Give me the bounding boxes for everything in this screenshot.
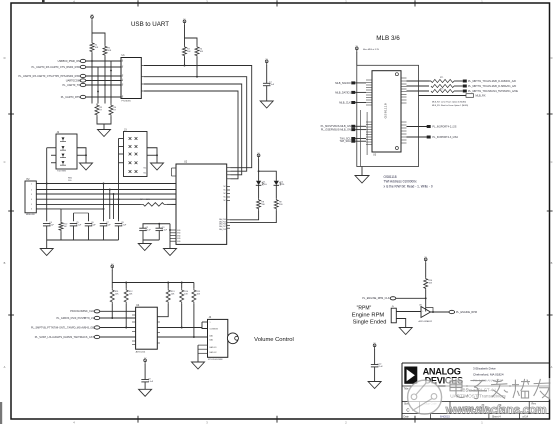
wire (396, 297, 426, 299)
series resistor RT1 (407, 80, 430, 82)
svg-text:Engine RPM: Engine RPM (352, 313, 385, 319)
header J3 (124, 132, 148, 177)
wire U2 to LED chains (230, 210, 259, 220)
cap row bottom bus (46, 226, 48, 240)
MLB_RX strap (419, 95, 467, 97)
volume input pads (94, 310, 100, 313)
wire (356, 52, 358, 65)
watermark logo circle (408, 380, 442, 414)
svg-text:PL_MRTH1_TXCAN-MLB_D-AVB4O1_A/: PL_MRTH1_TXCAN-MLB_D-AVB4O1_A/D (468, 80, 516, 83)
resistor R15 (192, 288, 196, 304)
capacitor C9 (141, 379, 149, 381)
svg-text:PL_GMIOS_DVI0_PUSHBTN_LS: PL_GMIOS_DVI0_PUSHBTN_LS (56, 317, 94, 320)
power 5V P1 (91, 18, 93, 21)
resistor R9 (274, 198, 278, 210)
RPM input pad (390, 297, 396, 300)
svg-text:PL_SUSH_LIS-AUDATS_DAPM2_TANTR: PL_SUSH_LIS-AUDATS_DAPM2_TANTRIACS_GST (35, 336, 95, 339)
svg-text:Volume Control: Volume Control (254, 337, 294, 343)
wire (266, 86, 268, 101)
svg-text:DAI_P07: DAI_P07 (219, 225, 226, 228)
wire (266, 65, 268, 83)
svg-text:PL_ENGINE_RPM_CLK: PL_ENGINE_RPM_CLK (362, 297, 390, 300)
watermark chinese characters (446, 378, 467, 400)
svg-text:USB to UART: USB to UART (131, 21, 169, 28)
svg-text:FT230XS: FT230XS (122, 101, 132, 103)
svg-text:0.1uF: 0.1uF (162, 229, 168, 231)
J4 lower pins to ground (198, 344, 208, 346)
node (184, 65, 186, 67)
svg-text:5: 5 (31, 204, 32, 206)
svg-text:STX-31003.5MM: STX-31003.5MM (208, 359, 223, 361)
svg-text:OS81118: OS81118 (384, 175, 397, 179)
IC U4 (136, 307, 158, 349)
svg-text:C: C (406, 408, 409, 413)
connector J4 jack (208, 319, 228, 357)
U2 left pins (172, 167, 177, 169)
svg-text:RT1: RT1 (440, 77, 443, 79)
svg-text:x is the R/W bit: Read - 1, W: x is the R/W bit: Read - 1, Write - 0 (384, 184, 433, 188)
svg-text:3: 3 (31, 194, 32, 196)
op IC U1 FT230X (121, 58, 141, 99)
ground (151, 163, 164, 170)
svg-text:Title: Title (404, 387, 409, 391)
ground (192, 362, 205, 369)
svg-text:PICCOLOMISC_CLK: PICCOLOMISC_CLK (70, 310, 94, 313)
svg-text:B: B (551, 261, 553, 265)
series resistor RT3 (407, 90, 430, 92)
svg-text:PL_MRTH1_TXD-MM-M1_5VTRM/O1_A/: PL_MRTH1_TXD-MM-M1_5VTRM/O1_A/OE (468, 90, 518, 93)
svg-text:TCK/TMS: TCK/TMS (57, 171, 66, 173)
svg-text:MLB_DAT/D1: MLB_DAT/D1 (335, 90, 351, 94)
op-amp U5 (421, 307, 431, 318)
svg-text:3: 3 (122, 74, 123, 76)
capacitor C5 (70, 223, 78, 225)
svg-text:A: A (4, 365, 6, 369)
svg-text:0.1uF: 0.1uF (76, 225, 82, 227)
svg-text:1: 1 (31, 183, 32, 185)
big IC U2 (176, 164, 227, 244)
MLB signal pads left (351, 81, 355, 84)
svg-text:Chelmsford, MA 01824: Chelmsford, MA 01824 (473, 372, 504, 376)
svg-text:MLB 3/6: MLB 3/6 (376, 35, 400, 42)
svg-text:10uF: 10uF (49, 225, 54, 227)
svg-text:0.1uF: 0.1uF (148, 381, 154, 383)
U2 left lower pins to ground bundle (170, 229, 176, 231)
U1 left pin numbers (121, 60, 123, 62)
svg-text:BA1: BA1 (210, 335, 213, 338)
svg-text:A: A (551, 365, 553, 369)
capacitor C4 (43, 223, 51, 225)
svg-text:PL_SMPTVB_PTTNTWI-GNTL_TANPD_M: PL_SMPTVB_PTTNTWI-GNTL_TANPD_MS-AVB43_GB (31, 326, 94, 329)
op-amp output wire (431, 311, 450, 313)
svg-text:C: C (551, 160, 553, 164)
U2 right pins upper (227, 167, 231, 169)
LED D2 (274, 181, 279, 185)
resistor R11 (110, 288, 114, 304)
jack barrel circle (227, 333, 238, 344)
power 3V3 MLB (356, 49, 358, 52)
ground (355, 176, 369, 184)
ground (80, 163, 93, 170)
svg-text:YEL: YEL (281, 184, 285, 186)
power 5V RPM decap (374, 346, 376, 349)
ground (260, 101, 273, 108)
resistor R13 (166, 288, 170, 304)
wire (91, 21, 93, 42)
wire J5 pin2 to ground (396, 319, 405, 328)
wires pads to U1 (86, 60, 121, 62)
U3 left pin stubs (366, 79, 372, 81)
resistor R6 (109, 104, 113, 117)
node junctions (91, 60, 93, 62)
wire (144, 364, 146, 379)
connector pads USB signals (80, 59, 86, 62)
svg-text:BA/D-S1: BA/D-S1 (210, 346, 217, 349)
svg-text:3 Elizabeth Drive: 3 Elizabeth Drive (473, 366, 496, 370)
zone tick marks top (137, 0, 139, 6)
wire (97, 67, 99, 104)
svg-text:COMMON: COMMON (210, 328, 219, 330)
capacitor C1 (263, 82, 271, 84)
resistor R2 (103, 45, 107, 57)
wire (425, 263, 427, 277)
svg-text:PL_UART0_RTS: PL_UART0_RTS (61, 95, 81, 99)
svg-text:Single Ended: Single Ended (353, 320, 387, 326)
power 5V volume decap (144, 361, 146, 364)
wire (51, 147, 56, 149)
svg-text:2: 2 (122, 65, 123, 67)
wire J5 to op-amp (396, 311, 421, 313)
zone tick marks bottom (137, 416, 139, 423)
wire (142, 231, 144, 244)
svg-text:0.1uF: 0.1uF (378, 366, 384, 368)
zone tick marks left (8, 113, 14, 115)
svg-text:UART0COM: UART0COM (66, 78, 80, 82)
resistor R1 (90, 42, 94, 54)
resistor R4 (195, 46, 199, 58)
svg-text:MLB_RX: Float for Foam Option: MLB_RX: Float for Foam Option 1 (MLB5) (432, 104, 469, 107)
power 5V RPM (425, 260, 427, 263)
wire (91, 53, 93, 104)
svg-text:OS81118: OS81118 (384, 103, 388, 118)
svg-text:ADTL082ARJZ: ADTL082ARJZ (419, 320, 433, 323)
wire U1 to U2 bus (144, 66, 252, 168)
op-amp feedback wire (426, 308, 433, 313)
TWI pads left (351, 137, 355, 140)
svg-text:MLB_RX: MLB_RX (476, 95, 486, 98)
power 5V P4 (258, 156, 260, 159)
svg-text:PL_MRTH1_TXCAN-MLB_D-SIBA/O1_A: PL_MRTH1_TXCAN-MLB_D-SIBA/O1_A/D (468, 85, 516, 88)
wire (97, 117, 111, 125)
inner vertical wires in shield box (360, 110, 362, 167)
power 5V P3 (266, 62, 268, 65)
svg-text:0.1uF: 0.1uF (146, 229, 152, 231)
ground (399, 328, 412, 335)
ground (139, 389, 152, 396)
header J2 (56, 134, 77, 169)
svg-text:ADG1414: ADG1414 (136, 350, 146, 353)
scan edge artifact bottom-left (0, 402, 2, 424)
capacitor C3 (156, 227, 164, 229)
svg-text:DAI_P08: DAI_P08 (219, 228, 226, 231)
svg-text:6: 6 (122, 95, 123, 97)
resistor R14 (180, 288, 184, 304)
U3 right pin stubs (401, 77, 407, 79)
wire bus P2 to U2 (36, 183, 176, 185)
svg-text:0.1uF: 0.1uF (269, 84, 275, 86)
svg-text:USB5V0_PWR_ON: USB5V0_PWR_ON (58, 59, 81, 63)
ground (98, 130, 111, 137)
U1 right pins (141, 65, 144, 67)
svg-text:PL_UART0_RX-UART0_CTS-PTP0_PPS: PL_UART0_RX-UART0_CTS-PTP0_PPS-RMII0_RXD (18, 74, 80, 78)
svg-text:PL_GSERVBUS-MLB_GN: PL_GSERVBUS-MLB_GN (321, 128, 351, 132)
svg-text:"RPM": "RPM" (357, 306, 372, 312)
title block frame (402, 362, 550, 364)
capacitor C10 (371, 364, 379, 366)
MLB power pads left (351, 125, 355, 128)
svg-text:2: 2 (31, 189, 32, 191)
svg-text:47pF: 47pF (91, 225, 96, 227)
LED D1 (256, 181, 261, 185)
U4 left pin stubs (132, 310, 136, 312)
wire resistor bottoms (111, 304, 113, 318)
svg-text:www.elecfans.com: www.elecfans.com (445, 403, 547, 417)
power rail wire (111, 270, 113, 288)
capacitor C8 (115, 223, 123, 225)
resistor R5 (95, 104, 99, 117)
I2S pads right (407, 126, 428, 128)
svg-text:5: 5 (122, 83, 123, 85)
title block row dividers (418, 402, 420, 414)
svg-text:D: D (4, 56, 6, 60)
wire to ground (77, 148, 86, 163)
IC U3 OS81118 (372, 71, 401, 152)
U2 right pins mid (227, 186, 230, 188)
resistor R10 (59, 221, 63, 231)
svg-text:TWI Address 0100000x: TWI Address 0100000x (384, 180, 418, 184)
resistor R7 series (122, 203, 141, 205)
svg-text:MINI-USB: MINI-USB (26, 214, 35, 216)
wire (425, 290, 427, 312)
svg-text:PL_UART0_RX-UART0_CTS_RMII0_RX: PL_UART0_RX-UART0_CTS_RMII0_RXD (32, 65, 81, 69)
svg-text:Date: Date (404, 416, 410, 419)
svg-text:4: 4 (122, 79, 123, 81)
RPM output pad (449, 310, 455, 313)
svg-text:BA2: BA2 (210, 339, 213, 342)
wire (144, 382, 146, 389)
wires U4 to J4 (157, 328, 207, 329)
power 5V P2 (184, 22, 186, 25)
svg-text:MLB_RX: Lo for Foam Option 3 (: MLB_RX: Lo for Foam Option 3 (MLB3) (432, 100, 466, 103)
resistor R16 (424, 277, 428, 290)
svg-text:BA/D-S2: BA/D-S2 (210, 351, 217, 354)
wire (374, 367, 376, 382)
svg-text:Main MLB at 3.3V: Main MLB at 3.3V (363, 48, 380, 51)
capacitor C6 (85, 223, 93, 225)
wire (258, 159, 260, 181)
svg-text:PL_UART0_TX: PL_UART0_TX (62, 83, 80, 87)
Analog Devices logo (404, 367, 417, 384)
ground (40, 249, 53, 256)
wire (119, 138, 124, 140)
series resistor RT2 (407, 85, 430, 87)
resistor R3 (183, 46, 187, 58)
wire (184, 25, 186, 46)
U4 right pins (157, 316, 160, 318)
zone tick marks right (547, 113, 553, 115)
svg-text:YEL: YEL (263, 184, 267, 186)
ground (368, 382, 381, 389)
svg-text:MLB_SIG/DO: MLB_SIG/DO (335, 81, 351, 85)
decoupling caps under U2 (143, 223, 171, 225)
svg-text:4: 4 (31, 199, 32, 201)
wire shield to ground (361, 167, 363, 176)
ground (164, 249, 177, 256)
wire (374, 349, 376, 364)
svg-text:0.1uF: 0.1uF (121, 225, 127, 227)
wire (258, 185, 260, 198)
power 5V volume (111, 267, 113, 270)
connector J5 (391, 308, 396, 323)
svg-text:PL_IN3PORT4-3_I2S4: PL_IN3PORT4-3_I2S4 (432, 136, 458, 139)
wire to ground (147, 148, 157, 163)
resistor R12 (124, 288, 128, 304)
svg-text:47pF: 47pF (106, 225, 111, 227)
svg-text:B: B (4, 261, 6, 265)
svg-text:1: 1 (210, 322, 211, 324)
ground (138, 244, 151, 251)
outer shield box (357, 65, 419, 166)
cap row top wires (46, 219, 48, 221)
svg-text:1M: 1M (64, 226, 67, 228)
resistor R8 (257, 198, 261, 210)
svg-text:TWI_SDA: TWI_SDA (339, 139, 351, 143)
connector P2 left edge (25, 181, 36, 213)
svg-text:D: D (551, 56, 553, 60)
svg-text:MLB_CLK: MLB_CLK (339, 100, 351, 104)
wire (184, 57, 186, 66)
svg-text:PL_ENGINE_RPM: PL_ENGINE_RPM (456, 311, 477, 314)
svg-text:C: C (4, 160, 6, 164)
capacitor C2 (139, 227, 147, 229)
vertical wires to cap row (103, 184, 105, 209)
svg-text:6: 6 (31, 209, 32, 211)
svg-text:PL_IN2PORT4-2_I2S: PL_IN2PORT4-2_I2S (432, 126, 456, 129)
node junctions on bus (46, 183, 48, 185)
svg-text:1: 1 (122, 59, 123, 61)
capacitor C7 (100, 223, 108, 225)
